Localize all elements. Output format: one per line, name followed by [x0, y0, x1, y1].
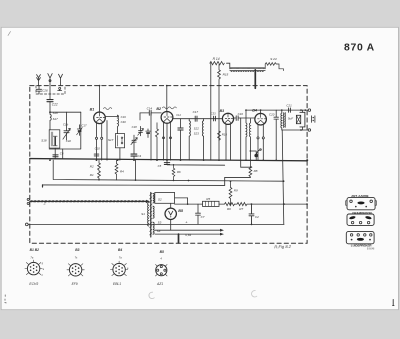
- antenna terminal 2: [48, 74, 52, 86]
- trimmer capacitor: [77, 123, 87, 135]
- wire tank top: [50, 111, 81, 113]
- wire B1 pin a: [96, 123, 98, 137]
- svg-text:C12: C12: [176, 113, 181, 117]
- wire loop to bus: [62, 149, 64, 159]
- svg-text:C8: C8: [60, 152, 64, 156]
- capacitor C17: [193, 110, 199, 121]
- mains line: [28, 223, 284, 225]
- resistor R16: [218, 131, 221, 140]
- wire screen: [106, 121, 108, 161]
- resistor R9: [229, 180, 238, 205]
- oscillator coil box: [108, 134, 125, 148]
- svg-text:C17: C17: [193, 110, 199, 114]
- coil box S18: [41, 130, 60, 148]
- capacitor C30: [140, 107, 161, 120]
- svg-text:S2: S2: [158, 198, 162, 202]
- wire HT line: [175, 203, 203, 205]
- IF coil S23: [194, 119, 204, 161]
- IF transformer top wire: [173, 118, 223, 120]
- resistor R14: [210, 57, 225, 65]
- capacitor C2: [249, 203, 259, 225]
- capacitor left of IF: [178, 119, 183, 161]
- capacitor on wire: [214, 116, 216, 121]
- svg-text:R16: R16: [222, 132, 228, 136]
- wire osc tap thick: [254, 70, 256, 88]
- wire B3 pins: [226, 124, 231, 160]
- svg-text:C33: C33: [211, 112, 216, 116]
- resistor R8: [249, 161, 258, 178]
- node ant junction: [49, 111, 51, 113]
- svg-text:B4: B4: [118, 248, 122, 252]
- tube B1: [90, 107, 112, 123]
- choke coil b: [248, 119, 251, 160]
- svg-text:5uF: 5uF: [288, 117, 293, 121]
- main ground bus: [30, 159, 307, 161]
- svg-text:C17: C17: [81, 123, 87, 127]
- connector block 2: [347, 211, 374, 226]
- svg-text:S18: S18: [41, 138, 47, 142]
- svg-text:C26: C26: [42, 89, 48, 93]
- antenna terminal 3: [59, 74, 63, 85]
- svg-text:R8: R8: [254, 169, 258, 173]
- svg-text:R6: R6: [177, 170, 181, 174]
- svg-text:S 24: S 24: [270, 57, 277, 61]
- svg-text:C19: C19: [121, 115, 127, 119]
- power transformer T1: [141, 193, 162, 238]
- svg-text:C21: C21: [286, 103, 292, 107]
- tube B2: [156, 107, 176, 123]
- svg-text:C40: C40: [121, 120, 127, 124]
- svg-text:B3: B3: [220, 109, 225, 113]
- capacitor C4: [131, 154, 142, 160]
- pencil arc 1: [149, 292, 154, 298]
- svg-text:S22: S22: [194, 126, 199, 130]
- svg-text:C5: C5: [158, 164, 162, 168]
- capacitor C5: [164, 163, 169, 165]
- capacitor C26: [36, 86, 48, 94]
- wire speaker bottom: [282, 129, 309, 131]
- svg-text:C14: C14: [147, 107, 153, 111]
- svg-text:R9: R9: [234, 188, 238, 192]
- svg-text:S16: S16: [53, 111, 59, 115]
- resistor R6: [219, 203, 235, 206]
- svg-text:B1 B2: B1 B2: [30, 248, 40, 252]
- resistor R17: [172, 164, 181, 181]
- resistor R15: [218, 65, 229, 80]
- wire long vertical right: [282, 130, 284, 224]
- svg-text:R1: R1: [90, 173, 94, 177]
- pencil arc 2: [252, 291, 257, 297]
- svg-text:C10: C10: [95, 146, 101, 150]
- svg-text:C7: C7: [201, 215, 205, 219]
- node top right: [300, 109, 302, 111]
- socket B1 B2: [25, 248, 45, 286]
- wire B2 pins: [164, 123, 171, 160]
- wire avc line: [53, 160, 284, 181]
- svg-text:B3: B3: [75, 248, 79, 252]
- svg-text:EBL1: EBL1: [113, 282, 121, 286]
- svg-text:R5: R5: [206, 197, 210, 201]
- pencil mark top left: [8, 32, 11, 36]
- wire R14 left leg long: [210, 63, 212, 160]
- chassis dashed box: [30, 86, 307, 244]
- svg-text:B 6048: B 6048: [367, 248, 375, 250]
- connector block 1: [346, 194, 377, 210]
- svg-text:R.Fig 8.2: R.Fig 8.2: [274, 244, 291, 250]
- capacitor in ant box: [58, 87, 62, 90]
- padder capacitor C15: [131, 135, 137, 153]
- svg-text:S3: S3: [158, 220, 162, 224]
- loudspeaker: [296, 110, 305, 130]
- wire vertical: [150, 113, 152, 160]
- wire B1 pin b: [101, 123, 103, 137]
- wire to chassis thick: [178, 234, 180, 243]
- svg-text:LUIDSPREKER: LUIDSPREKER: [351, 244, 373, 248]
- wire B2 anode: [166, 86, 168, 112]
- capacitor C21: [286, 103, 292, 112]
- resistor R (b2 grid): [156, 123, 159, 160]
- wire drops to avc: [135, 160, 137, 180]
- resistor R5 box: [203, 197, 220, 206]
- wire anode top line: [246, 109, 308, 111]
- output transformer S26: [281, 109, 293, 130]
- HT box: [155, 193, 175, 204]
- wire agc return line: [43, 177, 251, 185]
- wire antenna lead: [49, 86, 51, 100]
- resistor R2 R1 stack: [90, 160, 101, 180]
- svg-text:R4: R4: [120, 169, 124, 173]
- wire B1 anode: [99, 86, 101, 112]
- wire B4 pins: [257, 125, 259, 137]
- trimmer C43: [132, 125, 144, 136]
- capacitor C20: [269, 110, 279, 160]
- resistor R7: [235, 203, 251, 206]
- wire B5 top: [170, 203, 172, 208]
- capacitor C8: [53, 152, 64, 157]
- choke coil a: [245, 110, 248, 160]
- svg-text:C20: C20: [269, 112, 275, 116]
- wire HT line right: [251, 203, 308, 205]
- node bus dots: [49, 159, 308, 161]
- tube B3: [220, 109, 234, 124]
- speaker terminal bracket: [312, 116, 315, 123]
- ink mark bottom right: [393, 300, 394, 306]
- svg-text:S17: S17: [53, 117, 59, 121]
- svg-text:C2: C2: [255, 215, 259, 219]
- svg-text:EF9: EF9: [72, 282, 78, 286]
- socket B5: [156, 250, 168, 286]
- svg-text:870 A: 870 A: [344, 42, 375, 53]
- svg-text:0,64: 0,64: [185, 233, 191, 237]
- antenna terminal 1: [37, 75, 41, 86]
- pencil marks bottom left: [5, 295, 6, 303]
- wire B2 cathode long: [166, 123, 168, 162]
- IF coil S22: [189, 119, 199, 161]
- capacitor C16: [234, 112, 255, 120]
- svg-text:S1: S1: [141, 212, 145, 216]
- oscillator scale coil: [227, 63, 266, 71]
- resistor R4: [115, 160, 124, 180]
- svg-text:S17: S17: [108, 138, 114, 142]
- svg-text:B5: B5: [160, 250, 164, 254]
- capacitor C22: [47, 100, 58, 113]
- tube B4: [252, 108, 266, 125]
- svg-text:C1b: C1b: [63, 123, 69, 127]
- svg-text:R7: R7: [239, 207, 243, 211]
- wire HT out: [175, 198, 188, 204]
- coil S24: [265, 57, 283, 71]
- trimmer dark: [146, 129, 150, 138]
- wire box to bus: [119, 148, 121, 160]
- socket B4: [110, 248, 129, 286]
- svg-text:R15: R15: [223, 73, 229, 77]
- svg-text:C16: C16: [238, 112, 244, 116]
- wire tank loop: [49, 112, 81, 149]
- wire R15 leg long: [218, 80, 220, 160]
- svg-text:C4: C4: [137, 154, 141, 158]
- svg-text:ECH3: ECH3: [29, 282, 38, 286]
- mains braided line: [27, 198, 150, 205]
- wire B5 bottom: [170, 220, 172, 231]
- coil S19 S20: [105, 115, 126, 133]
- connector block 3: [346, 232, 375, 251]
- heater lines: [155, 229, 224, 237]
- capacitor C7: [196, 204, 205, 224]
- svg-text:C18: C18: [132, 125, 138, 129]
- socket B3: [67, 248, 84, 286]
- svg-text:C22: C22: [52, 102, 58, 106]
- svg-text:B1: B1: [90, 107, 95, 111]
- variable capacitor C1: [63, 112, 71, 143]
- capacitor C8: [94, 146, 100, 156]
- wire S18 to bus: [54, 148, 56, 159]
- coil S16 S17: [50, 111, 58, 130]
- svg-text:C42: C42: [66, 139, 72, 143]
- svg-text:S23: S23: [194, 131, 199, 135]
- rectifier tube B5: [165, 208, 184, 219]
- wire detector line: [167, 162, 225, 165]
- svg-text:R6: R6: [227, 207, 231, 211]
- wire B4 grid return: [241, 118, 251, 167]
- svg-text:AZ1: AZ1: [156, 282, 163, 286]
- svg-text:R2: R2: [90, 164, 94, 168]
- svg-text:R 14: R 14: [213, 57, 220, 61]
- antenna sub dashed box: [36, 86, 65, 94]
- switch I9: [250, 149, 262, 160]
